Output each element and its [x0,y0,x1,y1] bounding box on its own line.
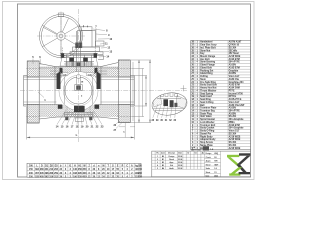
svg-text:A105N: A105N [229,112,237,115]
wheel centerline vertical [60,12,62,60]
adapter plate lines [60,53,98,55]
svg-text:B4: B4 [162,167,164,170]
svg-text:Stem Bearing: Stem Bearing [200,61,216,64]
top label 7 [95,28,97,40]
svg-text:B1: B1 [162,159,164,161]
trunnion dark [74,106,85,112]
seat spring left dark [60,68,63,74]
svg-text:Gear Box Assy: Gear Box Assy [200,44,217,47]
handwheel hub [57,32,65,40]
svg-text:Appr: Appr [170,161,174,164]
trunnion bolt right [89,117,92,120]
svg-text:304+Graphite: 304+Graphite [229,118,245,121]
svg-text:Thrust Washer: Thrust Washer [200,89,216,92]
svg-text:SS 304: SS 304 [229,132,237,135]
svg-text:A182 F6a: A182 F6a [229,78,240,81]
svg-text:304+PTFE: 304+PTFE [229,110,241,113]
svg-text:L: L [76,133,78,137]
svg-text:O-Ring: O-Ring [200,76,208,78]
bracket step right [98,56,104,60]
drawing frame [18,4,251,177]
left flange hatch bottom [27,105,39,124]
plate bolt right dark [94,53,97,58]
svg-text:A105N: A105N [229,72,237,75]
svg-text:Seat Spring: Seat Spring [200,92,214,95]
svg-text:A216 WCB: A216 WCB [229,55,241,58]
svg-text:23.06: 23.06 [178,159,182,161]
dimension right [131,60,151,123]
svg-text:Check: Check [206,157,211,159]
gearbox input stub [96,41,105,46]
svg-text:B0: B0 [162,156,164,158]
seat lower left dark [58,105,63,109]
packing box [72,58,74,67]
svg-text:Packing Set: Packing Set [200,69,213,72]
seat ring left dark [57,71,61,89]
gland bolt right [83,58,88,62]
svg-text:Hex Bolt: Hex Bolt [200,58,210,61]
handwheel rim [39,14,82,57]
stem socket in ball [75,85,82,91]
bore label [38,92,44,98]
svg-text:B3: B3 [162,165,164,167]
svg-text:23.06: 23.06 [178,165,182,167]
right flange bolt lines [117,68,131,70]
svg-text:Spiral Gasket: Spiral Gasket [200,118,215,121]
svg-text:Seat O-Ring: Seat O-Ring [200,101,214,104]
body hatch bottom band [39,105,118,118]
svg-text:Zone: Zone [161,153,165,155]
svg-text:SS 304: SS 304 [229,46,237,49]
ball cavity white [59,72,98,111]
wheel centerline horizontal [37,35,86,37]
detail leaders [153,104,176,118]
seat pocket lines [50,70,63,72]
svg-text:SS 304: SS 304 [229,141,237,144]
tolerance frame right [86,73,93,76]
handwheel top clamp [58,13,64,16]
svg-text:Trunnion Bolt: Trunnion Bolt [200,124,215,127]
svg-text:Std: Std [170,164,173,167]
left labels [33,59,41,66]
svg-text:Stem Nut: Stem Nut [200,49,210,52]
svg-text:PTFE: PTFE [229,90,235,92]
svg-text:Mount Flange: Mount Flange [200,55,216,58]
packing extra lines [60,58,98,67]
left raised face ring [24,76,28,107]
svg-text:Check: Check [169,159,174,161]
left flange bolt lines [26,68,40,70]
svg-text:Viton GLT: Viton GLT [229,75,240,78]
svg-text:A105N: A105N [229,107,237,110]
svg-text:1/1: 1/1 [214,172,216,174]
svg-text:3: 3 [157,162,158,164]
svg-text:4: 4 [157,164,158,167]
svg-text:SS 201: SS 201 [229,116,237,118]
body bottom edge [39,117,118,119]
svg-text:DN: DN [138,165,142,167]
svg-text:304+PTFE: 304+PTFE [229,61,241,64]
svg-text:Inconel X750: Inconel X750 [229,93,244,95]
svg-text:B2: B2 [162,162,164,164]
body hatch top band [39,67,118,78]
svg-text:RPTFE: RPTFE [229,96,237,98]
right flange hatch bottom [118,105,130,123]
svg-text:A216 WCB: A216 WCB [229,147,241,150]
body joint left [54,67,56,105]
dimension table bottom [27,163,143,178]
gearbox cap [81,27,92,31]
stem center dark [77,62,80,66]
dimension bottom [27,107,135,140]
svg-text:1: 1 [157,156,158,158]
ball [65,77,92,104]
svg-text:Seat Ring: Seat Ring [200,98,211,101]
trunnion bolt dashed lines [66,106,68,118]
stem collar circle [77,75,81,79]
svg-text:Design: Design [169,156,175,158]
bonnet hatch right [86,62,92,67]
svg-text:SS 304: SS 304 [229,144,237,147]
svg-text:A193 B7M: A193 B7M [229,66,240,69]
gearbox housing [78,31,96,48]
svg-text:Vent Valve: Vent Valve [200,115,212,118]
center cross mark [181,85,187,91]
svg-text:Sheet: Sheet [206,171,211,174]
packing hatch right [81,62,85,67]
svg-text:DN: DN [29,165,33,167]
svg-text:Audit: Audit [169,167,174,170]
svg-text:Heavy Hex Nut: Heavy Hex Nut [200,87,217,90]
svg-text:23.06: 23.06 [178,168,182,170]
svg-text:Stop Screw: Stop Screw [200,141,213,144]
svg-text:A182 F6a ENP: A182 F6a ENP [229,104,245,107]
gearbox bolt dashes [62,48,64,55]
svg-text:Ap: Ap [202,152,204,155]
svg-text:Appro: Appro [206,160,211,163]
svg-text:Ball: Ball [200,105,205,107]
svg-text:5: 5 [157,168,158,170]
svg-text:A105N: A105N [229,64,237,67]
svg-text:A193 B7M: A193 B7M [229,124,240,127]
svg-text:Fire Safe Ring: Fire Safe Ring [200,82,216,84]
plate bolt left dark [61,53,64,58]
svg-text:Dr: Dr [187,153,189,155]
bottom label row [57,110,102,125]
logo green sigma [227,155,242,176]
tolerance frame left [61,73,68,76]
centerline vertical [78,9,80,142]
svg-text:Dowel Pin: Dowel Pin [200,133,212,135]
svg-text:Rv: Rv [157,153,159,155]
svg-text:Body Stud Bolt: Body Stud Bolt [200,84,217,87]
svg-text:Graphite+304: Graphite+304 [229,81,245,84]
logo [227,153,250,175]
svg-text:Date: Date [206,175,210,178]
seat spring right dark [95,68,98,74]
worm gear dark [75,43,82,49]
svg-text:1:8: 1:8 [214,168,217,170]
svg-text:Key: Key [200,53,205,55]
left flange hatch top [27,61,39,77]
detail left hatch wedge [152,95,162,107]
right flange outline [118,60,130,123]
svg-text:GB/T 9113: GB/T 9113 [191,150,202,152]
svg-text:2: 2 [157,159,158,161]
svg-text:Body Gasket: Body Gasket [200,127,214,130]
trunnion bolt left [65,117,68,120]
packing hatch left [73,62,77,67]
logo green overlap weave [231,167,242,173]
svg-text:Gland Flange: Gland Flange [200,65,215,67]
stem [77,31,81,86]
svg-text:M: M [102,165,104,167]
svg-text:23.06: 23.06 [178,156,182,158]
svg-text:Stem: Stem [200,78,206,81]
svg-text:Scale: Scale [206,168,210,170]
svg-text:Ind. Plate Bolt: Ind. Plate Bolt [200,46,216,49]
right label stack [93,29,109,57]
gearbox base [73,47,100,52]
svg-text:65Mn: 65Mn [229,122,236,124]
svg-text:Trunnion Plate: Trunnion Plate [200,107,217,110]
page trim border [3,2,255,180]
svg-text:Graphite: Graphite [229,69,239,72]
flange thickness dim [119,123,135,138]
svg-text:A194 2HM: A194 2HM [229,87,240,90]
body top edge [39,63,118,67]
svg-text:Handwheel: Handwheel [200,42,213,44]
cap studs [80,25,88,27]
logo dark sigma mirrored [237,153,251,174]
svg-text:Gland Ring: Gland Ring [200,73,213,75]
svg-text:Stand: Stand [206,163,211,166]
bonnet hatch left [66,62,72,67]
svg-text:45# Steel: 45# Steel [229,52,239,55]
svg-text:Right Body: Right Body [200,135,213,138]
svg-text:Ck: Ck [195,153,197,155]
detail top bolt rects [161,93,164,96]
svg-text:Trunnion Brg: Trunnion Brg [200,111,215,113]
svg-text:A216 WCB: A216 WCB [229,135,241,138]
svg-text:A193 B7M: A193 B7M [229,84,240,87]
svg-text:Viton GLT: Viton GLT [229,130,240,133]
parts list table [191,41,251,150]
svg-text:Lock Washer: Lock Washer [200,122,214,124]
centerline horizontal [20,90,187,92]
seat lower right dark [95,105,100,109]
svg-text:ASTM A197: ASTM A197 [229,41,242,44]
detail label row [152,120,177,122]
title block [152,146,251,178]
detail horizontal lines [153,107,186,109]
trunnion plate [65,112,94,117]
svg-text:A193 B7M: A193 B7M [229,58,240,61]
right raised face ring [130,76,134,107]
svg-text:Seat Insert: Seat Insert [200,95,212,98]
bore lines [24,77,135,105]
right flange hatch top [118,60,130,77]
handwheel spokes [42,17,80,56]
svg-text:A105+PTFE: A105+PTFE [229,98,242,101]
svg-text:Date: Date [178,152,182,155]
gland bolt left [69,58,74,62]
detail dark seal blobs [163,99,168,106]
svg-text:Gland Bolt: Gland Bolt [200,66,212,69]
svg-text:304+Graphite: 304+Graphite [229,127,245,130]
drain boss [75,118,83,121]
body joint right [100,67,102,105]
detail right hatch wedge [176,96,187,109]
left flange outline [27,61,39,123]
yoke legs [66,55,68,67]
svg-text:Viton GLT: Viton GLT [229,101,240,104]
seat ring right dark [97,71,101,89]
svg-text:Adapter Body: Adapter Body [200,138,216,141]
svg-text:35CrMo: 35CrMo [229,50,238,52]
svg-text:Design: Design [206,153,212,155]
gearbox bottom plate [70,52,103,55]
svg-text:Body O-Ring: Body O-Ring [200,131,215,133]
svg-text:23.06: 23.06 [178,162,182,164]
svg-text:A216 WCB: A216 WCB [229,138,241,141]
svg-text:2023: 2023 [214,176,218,178]
svg-text:Descript: Descript [168,152,175,155]
svg-text:QT450-10: QT450-10 [229,44,240,47]
svg-text:Drain Plug: Drain Plug [200,113,212,115]
